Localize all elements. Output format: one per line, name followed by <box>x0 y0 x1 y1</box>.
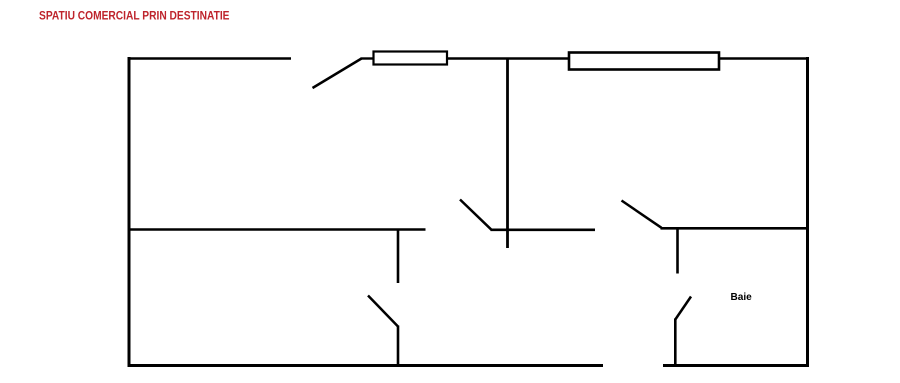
door D3 leaf (center hall, swings up-left) <box>460 200 492 230</box>
wall: short stub between door D1 hinge and window W1 <box>361 57 375 59</box>
svg-text:Baie: Baie <box>731 291 752 303</box>
wall: exterior top, segment right of window W2 <box>719 57 809 60</box>
window W2 (top wall, right) <box>569 53 719 70</box>
wall: interior vertical jamb below door D5 <box>674 319 677 367</box>
door D5 leaf (bathroom door, swings up-right) <box>675 297 691 320</box>
wall: interior vertical stub E (bathroom left wall, upper) <box>676 228 679 274</box>
door D4 leaf (right hall, swings up-left) <box>622 201 662 228</box>
wall: exterior bottom, right segment <box>663 364 809 367</box>
door D1 leaf (top entrance, swings down-left) <box>313 59 362 89</box>
wall: interior vertical stub B below wall A <box>397 230 400 284</box>
wall: interior vertical jamb below door D2 <box>397 326 400 367</box>
wall: exterior top, segment between window W1 and window W2 <box>447 57 570 60</box>
wall: exterior right <box>806 57 809 367</box>
window W1 (top wall, left) <box>374 52 448 65</box>
wall: interior horizontal D (bathroom top wall) <box>661 227 808 230</box>
wall: exterior top, segment left of door opening <box>128 57 292 60</box>
wall: interior central vertical partition <box>506 58 509 249</box>
wall: exterior left <box>128 57 131 367</box>
wall: interior horizontal A (left room divider) <box>129 228 426 231</box>
door D2 leaf (lower-left room, swings up-left) <box>368 296 398 327</box>
wall: interior horizontal C (center) <box>491 229 596 232</box>
svg-text:SPATIU COMERCIAL PRIN DESTINAT: SPATIU COMERCIAL PRIN DESTINATIE <box>39 11 230 23</box>
wall: exterior bottom, left segment <box>128 364 604 367</box>
